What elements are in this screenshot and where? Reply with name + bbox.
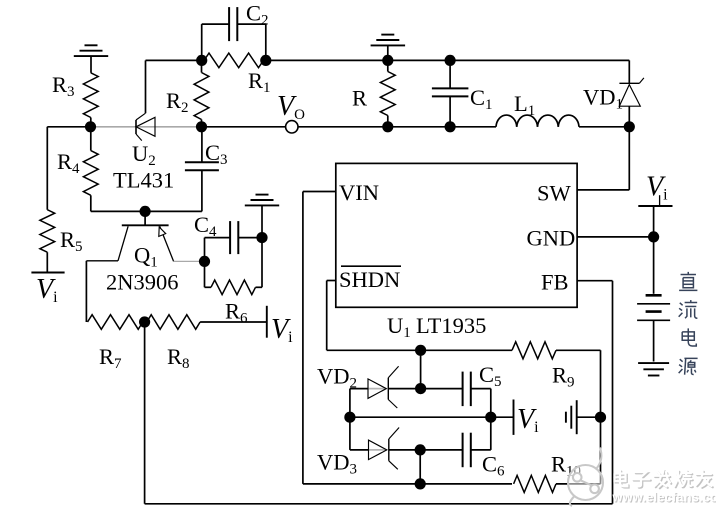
svg-text:VIN: VIN — [339, 180, 379, 205]
wire left leg VD2-VD3 — [349, 389, 351, 450]
wire node to R5 branch — [47, 127, 90, 210]
resistor R4 — [57, 127, 98, 212]
transistor Q1 2N3906 — [86, 211, 204, 322]
node R10 row — [415, 478, 426, 489]
capacitor C2 — [202, 1, 269, 61]
resistor R2 — [166, 60, 209, 126]
node Vo circle — [286, 121, 298, 133]
resistor R10 — [514, 452, 601, 493]
svg-text:R: R — [352, 86, 367, 111]
node SHDN rail — [415, 345, 426, 356]
wire R7 node to bottom — [144, 322, 146, 504]
diode VD1 — [583, 60, 644, 126]
svg-text:www.elecfans.com: www.elecfans.com — [612, 490, 716, 505]
resistor R7 — [88, 315, 145, 372]
capacitor C4 — [194, 212, 262, 261]
capacitor C1 — [432, 60, 493, 126]
terminal Vi mid — [514, 400, 540, 437]
capacitor C3 — [185, 127, 228, 212]
ground above R3 — [74, 45, 108, 73]
label DC source 流 — [679, 300, 698, 318]
node C1 bottom — [445, 121, 456, 132]
node left rail — [85, 121, 96, 132]
node Q1 base — [140, 206, 151, 217]
battery DC source — [637, 295, 670, 361]
svg-text:SHDN: SHDN — [339, 267, 400, 292]
svg-text:TL431: TL431 — [113, 168, 174, 193]
wire top rail — [146, 59, 630, 61]
node C1 top — [445, 55, 456, 66]
resistor R3 — [52, 72, 98, 127]
wire VD3 row right — [389, 449, 463, 451]
inductor L1 — [496, 91, 579, 127]
node R2 bottom — [196, 121, 207, 132]
wire Vi to GND node — [653, 206, 655, 294]
terminal Vi bottom-left — [31, 273, 64, 307]
resistor R — [352, 60, 395, 126]
ground below battery — [638, 363, 669, 375]
node R1 left — [196, 55, 207, 66]
wire SHDN drop — [327, 281, 512, 351]
node VD2 cathode — [415, 383, 426, 394]
ground above C4 — [245, 195, 279, 238]
resistor R6 — [205, 238, 263, 327]
terminal Vi right — [638, 172, 672, 207]
wire VD3 row left — [350, 449, 387, 451]
node right rail mid — [595, 412, 606, 423]
wire Vo rail gray segment — [91, 126, 202, 128]
svg-text:GND: GND — [527, 226, 576, 251]
node VD3 cathode — [415, 444, 426, 455]
diode VD2 — [317, 364, 399, 409]
pin VIN — [303, 180, 379, 205]
wire VD2 node drop — [420, 350, 422, 388]
node C4 right — [256, 232, 267, 243]
capacitor C6 — [463, 433, 505, 480]
wire VIN drop — [303, 192, 512, 484]
op-amp U1 LT1935 box — [336, 163, 577, 307]
terminal Vi mid-left — [267, 306, 293, 346]
node R7 R8 — [139, 316, 150, 327]
wire right rail — [600, 350, 602, 484]
svg-text:FB: FB — [541, 270, 569, 295]
wire bottom rail — [145, 503, 613, 505]
label DC source 电 — [682, 328, 696, 346]
wire FB pin — [577, 280, 612, 282]
node R bottom — [382, 121, 393, 132]
node Q1 emitter — [199, 256, 210, 267]
wire VD2 row left — [350, 388, 386, 390]
node mid row right — [485, 412, 496, 423]
wire mid row — [350, 416, 514, 418]
wire VD3 drop — [419, 450, 421, 484]
pin SW — [537, 181, 629, 206]
label DC source 源 — [679, 358, 698, 374]
capacitor C5 — [463, 362, 502, 450]
resistor R1 — [204, 53, 271, 96]
op-amp U2 TL431 symbol — [113, 60, 174, 192]
resistor R8 — [145, 315, 267, 372]
svg-text:LT1935: LT1935 — [416, 313, 486, 338]
wire VD2 row right — [388, 388, 462, 390]
svg-text:2N3906: 2N3906 — [106, 270, 179, 295]
ground left-pointing — [566, 400, 601, 434]
node VD1 anode — [624, 121, 635, 132]
wire FB riser — [612, 281, 614, 504]
wire SW riser — [628, 127, 630, 190]
node GND junction — [648, 231, 659, 242]
pin SHDN — [327, 266, 401, 292]
diode VD3 — [317, 428, 399, 478]
resistor R9 — [512, 342, 601, 391]
wire Vo rail — [202, 126, 630, 128]
watermark elecfans logo and text — [568, 448, 716, 507]
label DC source 直 — [679, 272, 697, 290]
node R1 right — [260, 55, 271, 66]
pin GND — [527, 226, 654, 251]
pin FB — [541, 270, 569, 295]
node R top — [382, 55, 393, 66]
svg-text:SW: SW — [537, 181, 572, 206]
wire TL431 anode rail — [91, 210, 202, 212]
ground above R — [371, 35, 406, 61]
resistor R5 — [40, 210, 83, 273]
node mid row left — [344, 412, 355, 423]
